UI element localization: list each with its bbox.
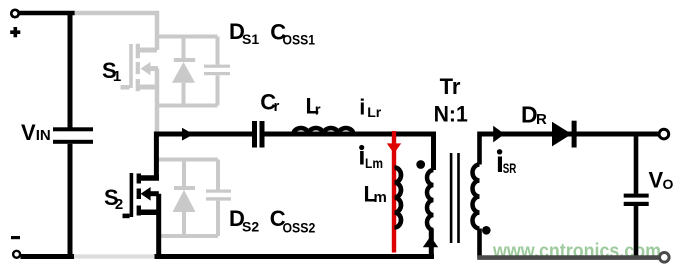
svg-text:1: 1 bbox=[113, 68, 121, 85]
svg-text:V: V bbox=[649, 168, 664, 193]
svg-text:N:1: N:1 bbox=[434, 101, 468, 126]
svg-text:R: R bbox=[536, 111, 547, 128]
svg-text:SR: SR bbox=[503, 160, 517, 176]
svg-text:r: r bbox=[315, 102, 321, 119]
svg-text:O: O bbox=[663, 176, 674, 192]
svg-text:Tr: Tr bbox=[440, 74, 461, 99]
svg-text:S2: S2 bbox=[242, 219, 259, 235]
svg-text:2: 2 bbox=[115, 196, 123, 213]
svg-text:Lm: Lm bbox=[365, 155, 383, 171]
svg-text:m: m bbox=[374, 189, 387, 206]
svg-text:V: V bbox=[21, 120, 36, 145]
svg-text:Lr: Lr bbox=[367, 104, 382, 120]
svg-text:S1: S1 bbox=[242, 31, 259, 47]
svg-text:r: r bbox=[274, 98, 280, 115]
svg-text:IN: IN bbox=[36, 127, 51, 144]
svg-text:OSS1: OSS1 bbox=[283, 32, 316, 48]
svg-text:OSS2: OSS2 bbox=[283, 220, 316, 236]
svg-text:i: i bbox=[359, 95, 365, 120]
